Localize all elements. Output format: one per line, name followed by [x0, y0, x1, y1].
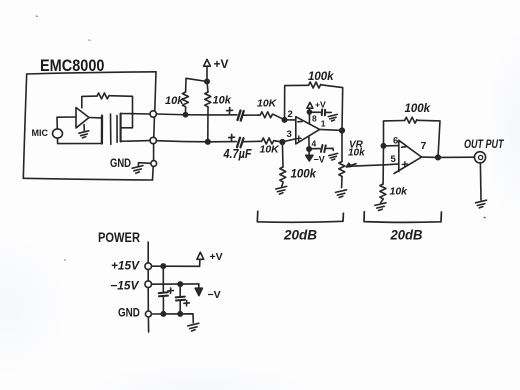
ground (internal amp) — [79, 125, 89, 138]
node pin2 junction — [282, 118, 286, 122]
label POWER — [98, 230, 140, 245]
wire -15V rail — [152, 283, 199, 285]
wire to pin3 — [275, 139, 295, 142]
svg-text:POWER: POWER — [98, 230, 140, 245]
svg-text:20dB: 20dB — [283, 228, 317, 243]
EMC8000 box outline — [23, 72, 156, 180]
minus sign (U2) — [402, 146, 406, 149]
ground (box gnd) — [132, 166, 143, 174]
wire upper signal line — [156, 113, 237, 116]
svg-text:GND: GND — [110, 158, 131, 170]
+V supply symbol (power) — [197, 252, 204, 266]
node pin3 junction — [280, 140, 285, 145]
wire gnd terminal elbow — [138, 163, 151, 167]
ground (output) — [476, 200, 487, 208]
bypass capacitor (pin 4) — [309, 145, 333, 152]
svg-text:100k: 100k — [308, 71, 334, 83]
node junction bias upper to line — [183, 113, 187, 117]
wire amp output to primary — [89, 117, 102, 119]
svg-text:100k: 100k — [405, 103, 431, 115]
label VR — [349, 140, 364, 151]
svg-text:8: 8 — [312, 114, 317, 124]
polarity + (cap1) — [168, 288, 173, 293]
pin 7 label — [421, 140, 427, 152]
wire output terminal to ground — [479, 163, 482, 200]
wire lower line cap to resistor — [244, 140, 262, 142]
-V supply symbol (pin 4) — [306, 149, 313, 161]
polarity + (upper cap) — [227, 108, 233, 114]
resistor 10k (bias lower) — [205, 82, 211, 142]
terminal -15V — [145, 281, 152, 288]
transformer core lines — [111, 114, 118, 144]
svg-text:4: 4 — [312, 139, 317, 149]
label -15V — [110, 279, 139, 293]
wire mic bottom rail to transformer primary — [58, 138, 103, 144]
resistor 10K (series lower) — [262, 138, 276, 144]
+V supply symbol (pin 8) — [307, 102, 313, 124]
pin 6 label — [393, 136, 398, 147]
brace stage 2 — [364, 212, 441, 223]
resistor 10k (bias upper) — [182, 78, 207, 114]
minus sign (U1 inverting input) — [298, 120, 302, 122]
ground (stage2 10k) — [375, 203, 386, 211]
wire power terminal strip — [147, 242, 149, 332]
label 4.7uF — [223, 147, 252, 161]
capacitor (+15 to gnd) — [159, 266, 168, 314]
svg-text:10K: 10K — [260, 144, 281, 156]
node cap2 gnd junction — [178, 312, 182, 316]
ground (power) — [188, 323, 199, 331]
pin 8 label — [312, 114, 317, 124]
svg-text:5: 5 — [391, 154, 397, 165]
brace stage 1 — [257, 211, 343, 222]
terminal GND (power) — [145, 311, 151, 317]
pin 4 stem — [308, 136, 310, 149]
svg-text:−V: −V — [208, 289, 221, 301]
ground (pin8 bypass) — [328, 114, 337, 121]
label 10K (series lower) — [260, 144, 281, 156]
node op2 output junction — [436, 155, 441, 160]
capacitor 4.7uF (lower) — [237, 138, 244, 148]
op-amp U2 triangle — [394, 140, 422, 173]
resistor 100k feedback (stage 1) — [285, 82, 343, 130]
wire secondary bottom to terminal 2 — [121, 140, 151, 143]
label MIC — [32, 128, 49, 139]
label 100k (stage2 feedback) — [405, 103, 431, 115]
wire upper line cap to resistor — [244, 114, 259, 116]
svg-text:1: 1 — [321, 119, 326, 129]
svg-text:+V: +V — [210, 251, 223, 263]
label -V (pin4) — [314, 155, 325, 165]
svg-text:20dB: 20dB — [390, 228, 423, 243]
node junction bias lower to line — [206, 140, 211, 145]
wire pin6 — [384, 145, 399, 147]
wire op1 output — [320, 129, 342, 130]
wire +15V rail — [152, 265, 200, 267]
label 10k (bias upper) — [165, 95, 184, 107]
resistor 10k to ground (stage 2) — [380, 146, 386, 203]
terminal 1 (out+) — [150, 111, 156, 117]
svg-text:10k: 10k — [213, 95, 232, 107]
wire mic top to amp input — [57, 117, 76, 129]
label -V (power) — [208, 289, 221, 301]
polarity + (cap2) — [184, 300, 189, 305]
label +V (power) — [210, 251, 223, 263]
plus sign (U2) — [402, 162, 407, 167]
wire VR wiper to pin5 — [348, 164, 399, 166]
output terminal — [474, 152, 485, 163]
svg-text:10k: 10k — [165, 95, 184, 107]
node pin6 junction — [381, 144, 385, 148]
label +15V — [111, 259, 140, 273]
label 100k (stage1 feedback) — [308, 71, 334, 83]
label OUT PUT — [464, 139, 504, 151]
wire gnd rail (power) — [152, 314, 194, 323]
terminal 2 (out-) — [150, 137, 156, 143]
label 10k (bias lower) — [213, 95, 232, 107]
label 20dB (stage2) — [390, 228, 423, 243]
plus sign (U1 noninverting input) — [296, 136, 301, 141]
capacitor 4.7uF (upper) — [238, 111, 244, 121]
label EMC8000 — [40, 56, 105, 75]
svg-text:+15V: +15V — [111, 259, 140, 273]
label GND (box) — [110, 158, 131, 170]
wire lower signal line — [156, 141, 236, 142]
svg-text:7: 7 — [421, 140, 427, 152]
svg-text:−15V: −15V — [110, 279, 139, 293]
svg-text:6: 6 — [393, 136, 398, 147]
svg-text:2: 2 — [288, 109, 293, 120]
wire secondary top to terminal 1 — [121, 113, 151, 116]
pin 2 label — [288, 109, 293, 120]
transformer primary bar — [101, 116, 103, 144]
label GND (power) — [118, 306, 140, 320]
wire to pin2 with feedback node — [274, 115, 296, 120]
microphone MIC — [53, 129, 63, 138]
pin 3 label — [287, 129, 292, 140]
label +V (bias) — [214, 57, 229, 71]
pin 4 label — [312, 139, 317, 149]
transformer secondary bar — [120, 114, 122, 142]
internal feedback resistor — [82, 93, 133, 128]
svg-text:100k: 100k — [291, 169, 317, 181]
label 10K (series upper) — [257, 98, 278, 110]
resistor 100k to ground (stage1 input) — [280, 142, 286, 187]
node cap1 gnd junction — [161, 312, 165, 316]
node +15 cap junction — [161, 264, 165, 268]
label 100k (to ground) — [291, 169, 317, 181]
label +V (pin8) — [315, 100, 326, 110]
capacitor (-15 to gnd) — [176, 284, 185, 314]
svg-text:GND: GND — [118, 306, 140, 320]
svg-text:10K: 10K — [257, 98, 278, 110]
label 20dB (stage1) — [283, 228, 317, 243]
op-amp U1 triangle — [296, 117, 320, 144]
svg-text:OUT PUT: OUT PUT — [464, 139, 504, 151]
svg-text:MIC: MIC — [32, 128, 49, 139]
terminal +15V — [145, 263, 152, 270]
bypass capacitor (pin 8) — [309, 109, 331, 115]
node -15 cap junction — [178, 282, 182, 286]
internal amplifier triangle — [76, 108, 89, 129]
specks — [36, 16, 485, 260]
svg-text:+V: +V — [315, 100, 326, 110]
node pin4 supply junction — [307, 147, 311, 151]
potentiometer VR 10k — [339, 131, 356, 188]
node pin8 supply junction — [307, 110, 311, 114]
polarity + (lower cap) — [229, 135, 235, 141]
svg-text:10k: 10k — [390, 186, 409, 198]
resistor 10K (series upper) — [258, 112, 274, 118]
resistor 100k feedback (stage 2) — [384, 117, 441, 157]
pin 1 label — [321, 119, 326, 129]
svg-text:3: 3 — [287, 129, 292, 140]
node bias supply junction — [205, 79, 209, 83]
ground (100k) — [276, 186, 287, 194]
terminal 3 (gnd) — [151, 161, 157, 167]
+V supply symbol (bias) — [204, 59, 211, 81]
label 10k (VR) — [348, 148, 365, 159]
node op1 output junction — [340, 128, 345, 133]
ground (VR) — [336, 190, 347, 198]
ground (pin4 bypass) — [329, 153, 338, 160]
label 10k (stage2) — [390, 186, 409, 198]
svg-text:−V: −V — [314, 155, 325, 165]
svg-text:10k: 10k — [348, 148, 365, 159]
pin 5 label — [391, 154, 397, 165]
-V supply symbol (power) — [195, 284, 202, 296]
svg-text:+V: +V — [214, 57, 229, 71]
wire op2 output — [422, 156, 475, 158]
svg-text:4.7µF: 4.7µF — [223, 147, 252, 161]
